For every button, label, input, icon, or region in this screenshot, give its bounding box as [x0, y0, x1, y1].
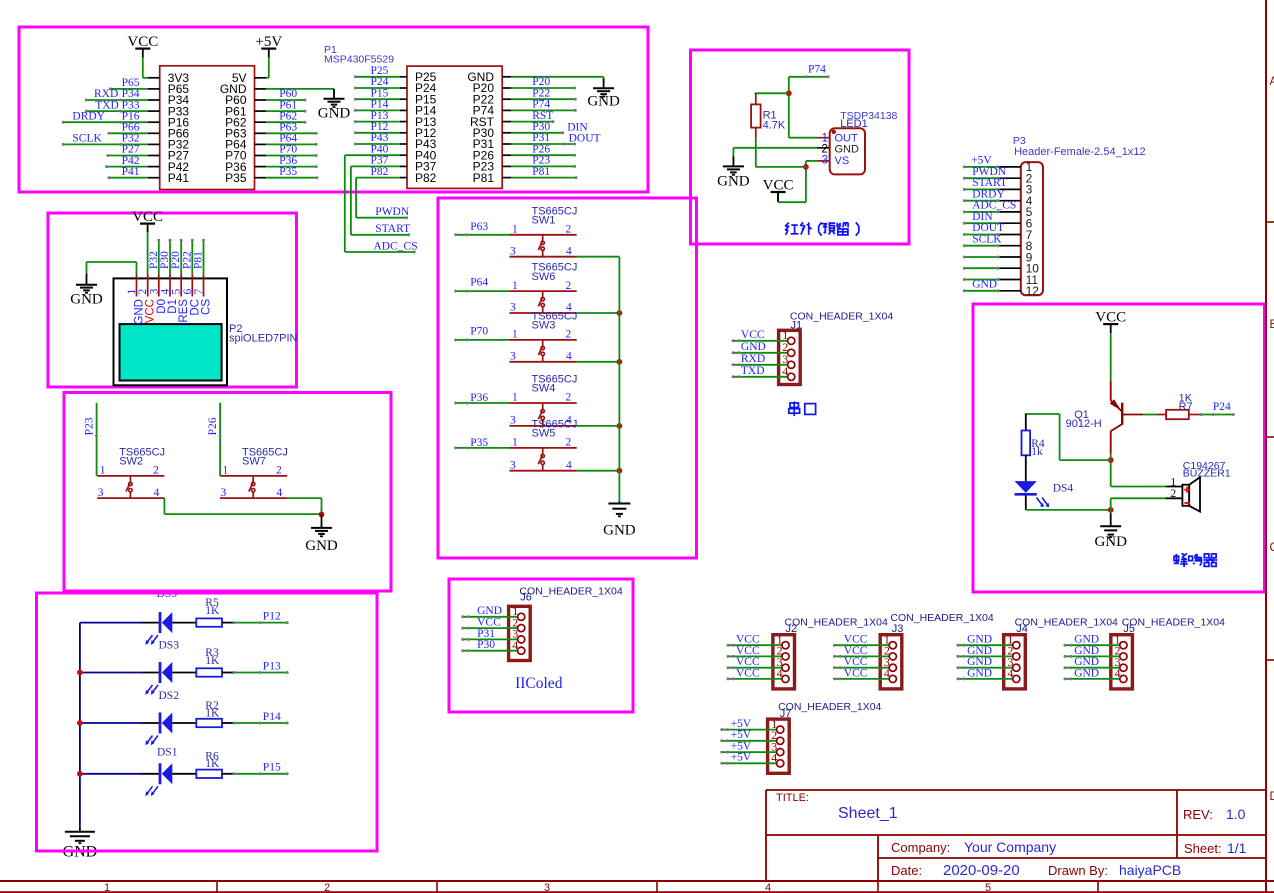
- svg-text:2: 2: [821, 142, 828, 156]
- svg-text:4: 4: [512, 638, 518, 652]
- svg-text:GND: GND: [972, 278, 997, 290]
- svg-text:4: 4: [1007, 666, 1013, 680]
- svg-text:ADC_CS: ADC_CS: [972, 200, 1016, 212]
- svg-text:DC: DC: [189, 299, 201, 316]
- svg-text:2: 2: [153, 465, 159, 477]
- svg-text:GND: GND: [967, 634, 992, 646]
- svg-text:3: 3: [148, 289, 160, 295]
- svg-text:5: 5: [985, 882, 991, 893]
- svg-text:P43: P43: [371, 132, 389, 144]
- svg-text:VCC: VCC: [844, 634, 868, 646]
- svg-text:P14: P14: [263, 711, 281, 723]
- svg-text:DRDY: DRDY: [972, 188, 1005, 200]
- svg-text:4: 4: [276, 487, 282, 499]
- svg-text:P36: P36: [470, 392, 488, 404]
- svg-text:DS1: DS1: [157, 747, 178, 759]
- svg-text:VCC: VCC: [844, 656, 868, 668]
- svg-text:P70: P70: [470, 326, 488, 338]
- svg-text:1K: 1K: [205, 655, 220, 667]
- svg-text:CON_HEADER_1X04: CON_HEADER_1X04: [1015, 616, 1118, 628]
- svg-text:+5V: +5V: [731, 718, 752, 730]
- svg-text:PWDN: PWDN: [972, 166, 1007, 178]
- svg-text:P74: P74: [532, 99, 550, 111]
- svg-text:7: 7: [193, 289, 205, 295]
- svg-text:R7: R7: [1179, 401, 1193, 413]
- svg-text:J6: J6: [520, 592, 532, 604]
- svg-text:1K: 1K: [205, 758, 220, 770]
- svg-text:REV:: REV:: [1183, 807, 1213, 822]
- svg-text:1: 1: [223, 465, 229, 477]
- svg-text:DIN: DIN: [972, 211, 993, 223]
- svg-text:VCC: VCC: [844, 645, 868, 657]
- svg-text:GND: GND: [477, 605, 502, 617]
- svg-text:SW1: SW1: [532, 215, 556, 227]
- svg-text:P13: P13: [371, 110, 389, 122]
- svg-text:VCC: VCC: [736, 656, 760, 668]
- svg-text:A: A: [1270, 76, 1274, 88]
- svg-text:4: 4: [765, 882, 771, 893]
- svg-text:6: 6: [182, 289, 194, 295]
- svg-text:P30: P30: [477, 639, 495, 651]
- svg-text:GND: GND: [1074, 667, 1099, 679]
- svg-text:PWDN: PWDN: [375, 206, 410, 218]
- svg-text:2: 2: [324, 882, 330, 893]
- svg-text:4: 4: [782, 364, 788, 378]
- svg-text:P14: P14: [371, 99, 389, 111]
- svg-text:1: 1: [512, 329, 518, 341]
- svg-text:CON_HEADER_1X04: CON_HEADER_1X04: [790, 310, 893, 322]
- svg-text:J1: J1: [791, 319, 803, 331]
- svg-text:+5V: +5V: [731, 729, 752, 741]
- svg-text:J4: J4: [1016, 623, 1028, 635]
- svg-text:P30: P30: [532, 121, 550, 133]
- svg-text:SW5: SW5: [532, 428, 556, 440]
- svg-text:4: 4: [777, 666, 783, 680]
- svg-text:D1: D1: [167, 299, 179, 314]
- svg-text:MSP430F5529: MSP430F5529: [324, 54, 394, 66]
- svg-text:3: 3: [221, 487, 227, 499]
- svg-text:P24: P24: [1213, 401, 1231, 413]
- svg-text:1/1: 1/1: [1227, 840, 1247, 856]
- svg-text:D0: D0: [156, 299, 168, 314]
- svg-text:J2: J2: [786, 623, 798, 635]
- svg-text:1k: 1k: [1031, 446, 1043, 458]
- svg-text:+5V: +5V: [731, 752, 752, 764]
- svg-text:P24: P24: [371, 76, 389, 88]
- svg-text:GND: GND: [1094, 534, 1127, 550]
- svg-text:3: 3: [510, 415, 516, 427]
- svg-text:B: B: [1270, 319, 1274, 331]
- svg-text:GND: GND: [134, 299, 146, 325]
- svg-text:DIN: DIN: [567, 121, 588, 133]
- svg-text:P63: P63: [470, 221, 488, 233]
- svg-text:3: 3: [98, 487, 104, 499]
- svg-text:P40: P40: [371, 143, 389, 155]
- svg-text:P41: P41: [168, 171, 190, 185]
- svg-text:2: 2: [276, 465, 282, 477]
- svg-text:LED1: LED1: [840, 118, 868, 130]
- svg-text:J7: J7: [780, 708, 792, 720]
- svg-text:DOUT: DOUT: [972, 222, 1004, 234]
- svg-text:P12: P12: [263, 610, 281, 622]
- svg-text:DRDY: DRDY: [72, 110, 105, 122]
- svg-text:DS3: DS3: [159, 640, 180, 652]
- svg-text:VCC: VCC: [736, 667, 760, 679]
- svg-text:3: 3: [822, 155, 828, 167]
- svg-text:VCC: VCC: [477, 617, 501, 629]
- svg-text:P81: P81: [193, 251, 205, 269]
- svg-text:C: C: [1270, 542, 1274, 554]
- svg-text:VCC: VCC: [844, 667, 868, 679]
- svg-text:P22: P22: [532, 87, 550, 99]
- svg-text:TITLE:: TITLE:: [776, 792, 809, 804]
- svg-text:3: 3: [510, 351, 516, 363]
- svg-text:4: 4: [771, 751, 777, 765]
- svg-text:Date:: Date:: [891, 863, 922, 878]
- svg-text:2: 2: [565, 224, 571, 236]
- svg-text:1K: 1K: [205, 707, 220, 719]
- svg-text:P41: P41: [122, 166, 140, 178]
- svg-text:RXD: RXD: [741, 353, 765, 365]
- svg-text:VCC: VCC: [736, 645, 760, 657]
- svg-text:P31: P31: [532, 132, 550, 144]
- svg-text:CON_HEADER_1X04: CON_HEADER_1X04: [890, 612, 993, 624]
- svg-text:1: 1: [126, 289, 138, 295]
- svg-text:P23: P23: [532, 155, 550, 167]
- svg-text:DOUT: DOUT: [569, 133, 601, 145]
- svg-text:P15: P15: [371, 87, 389, 99]
- svg-text:2020-09-20: 2020-09-20: [943, 862, 1020, 879]
- svg-text:START: START: [972, 177, 1007, 189]
- svg-text:spiOLED7PIN: spiOLED7PIN: [229, 333, 298, 345]
- svg-text:P81: P81: [532, 166, 550, 178]
- svg-text:CON_HEADER_1X04: CON_HEADER_1X04: [1122, 616, 1225, 628]
- svg-text:Company:: Company:: [891, 840, 950, 855]
- svg-text:P81: P81: [473, 171, 495, 185]
- svg-text:3: 3: [510, 459, 516, 471]
- svg-text:GND: GND: [967, 656, 992, 668]
- svg-text:3: 3: [544, 882, 550, 893]
- svg-text:4: 4: [154, 487, 160, 499]
- svg-text:P13: P13: [263, 660, 281, 672]
- svg-text:P30: P30: [159, 251, 171, 269]
- svg-text:4: 4: [566, 245, 572, 257]
- svg-text:GND: GND: [967, 645, 992, 657]
- svg-text:P31: P31: [477, 628, 495, 640]
- svg-text:GND: GND: [305, 538, 338, 554]
- svg-text:TXD: TXD: [741, 365, 765, 377]
- svg-text:haiyaPCB: haiyaPCB: [1119, 862, 1181, 878]
- svg-text:START: START: [375, 223, 410, 235]
- svg-text:GND: GND: [318, 106, 351, 122]
- svg-text:CON_HEADER_1X04: CON_HEADER_1X04: [519, 585, 622, 597]
- svg-text:J5: J5: [1123, 623, 1135, 635]
- svg-text:DS2: DS2: [159, 690, 180, 702]
- svg-text:3: 3: [510, 302, 516, 314]
- svg-text:4: 4: [160, 289, 172, 295]
- svg-text:SW2: SW2: [119, 456, 143, 468]
- svg-text:BUZZER1: BUZZER1: [1183, 468, 1231, 480]
- svg-text:Sheet:: Sheet:: [1184, 841, 1222, 856]
- svg-text:P26: P26: [532, 143, 550, 155]
- svg-text:1: 1: [104, 882, 110, 893]
- svg-text:GND: GND: [587, 94, 620, 110]
- svg-text:1: 1: [512, 224, 518, 236]
- svg-text:VS: VS: [835, 155, 850, 167]
- svg-text:P25: P25: [371, 65, 389, 77]
- svg-text:2: 2: [1170, 486, 1176, 500]
- svg-text:CON_HEADER_1X04: CON_HEADER_1X04: [785, 616, 888, 628]
- svg-text:P35: P35: [279, 166, 297, 178]
- svg-text:+5V: +5V: [971, 155, 992, 167]
- svg-text:GND: GND: [70, 292, 103, 308]
- svg-text:P12: P12: [371, 121, 389, 133]
- svg-text:P22: P22: [181, 251, 193, 269]
- svg-text:VCC: VCC: [741, 329, 765, 341]
- svg-text:VCC: VCC: [736, 634, 760, 646]
- svg-text:4: 4: [566, 351, 572, 363]
- svg-text:P20: P20: [532, 76, 550, 88]
- svg-text:Drawn By:: Drawn By:: [1048, 863, 1108, 878]
- svg-text:SW4: SW4: [532, 383, 556, 395]
- svg-text:Your Company: Your Company: [964, 839, 1056, 855]
- svg-text:SW6: SW6: [532, 271, 556, 283]
- svg-text:P23: P23: [84, 417, 96, 435]
- svg-text:P74: P74: [808, 63, 826, 75]
- svg-text:CS: CS: [201, 299, 213, 315]
- svg-text:P35: P35: [470, 437, 488, 449]
- svg-text:IIColed: IIColed: [515, 675, 563, 692]
- svg-text:P82: P82: [371, 166, 389, 178]
- svg-text:2: 2: [565, 280, 571, 292]
- svg-text:4.7K: 4.7K: [763, 119, 786, 131]
- svg-text:1.0: 1.0: [1226, 806, 1246, 822]
- svg-text:1: 1: [100, 465, 106, 477]
- svg-text:GND: GND: [1074, 656, 1099, 668]
- svg-text:GND: GND: [741, 341, 766, 353]
- svg-text:Header-Female-2.54_1x12: Header-Female-2.54_1x12: [1014, 146, 1145, 158]
- svg-text:J3: J3: [892, 623, 904, 635]
- svg-text:Sheet_1: Sheet_1: [838, 805, 898, 822]
- svg-text:1K: 1K: [205, 605, 220, 617]
- svg-text:DS4: DS4: [1053, 483, 1074, 495]
- svg-text:2: 2: [565, 329, 571, 341]
- svg-text:GND: GND: [603, 522, 636, 538]
- svg-text:ADC_CS: ADC_CS: [374, 240, 418, 252]
- svg-text:GND: GND: [1074, 645, 1099, 657]
- svg-text:SW3: SW3: [532, 320, 556, 332]
- svg-text:1: 1: [512, 392, 518, 404]
- svg-text:CON_HEADER_1X04: CON_HEADER_1X04: [778, 701, 881, 713]
- svg-text:GND: GND: [967, 667, 992, 679]
- svg-text:SCLK: SCLK: [72, 133, 102, 145]
- svg-text:1: 1: [512, 280, 518, 292]
- svg-text:3: 3: [510, 245, 516, 257]
- svg-text:GND: GND: [1074, 634, 1099, 646]
- svg-text:P82: P82: [415, 171, 437, 185]
- svg-text:P64: P64: [470, 277, 488, 289]
- svg-text:4: 4: [1115, 666, 1121, 680]
- svg-text:2: 2: [565, 437, 571, 449]
- svg-text:P37: P37: [371, 155, 389, 167]
- svg-text:GND: GND: [717, 173, 750, 189]
- svg-text:D: D: [1270, 791, 1274, 803]
- svg-text:1: 1: [512, 437, 518, 449]
- svg-text:4: 4: [566, 459, 572, 471]
- svg-text:4: 4: [884, 666, 890, 680]
- svg-text:12: 12: [1026, 284, 1040, 298]
- svg-text:+5V: +5V: [731, 741, 752, 753]
- svg-text:P26: P26: [207, 417, 219, 435]
- svg-text:2: 2: [565, 392, 571, 404]
- svg-text:P15: P15: [263, 762, 281, 774]
- svg-text:P35: P35: [225, 171, 247, 185]
- svg-text:P32: P32: [148, 251, 160, 269]
- svg-text:SCLK: SCLK: [972, 233, 1002, 245]
- svg-text:SW7: SW7: [242, 456, 266, 468]
- svg-text:RST: RST: [532, 110, 553, 122]
- svg-text:9012-H: 9012-H: [1066, 418, 1102, 430]
